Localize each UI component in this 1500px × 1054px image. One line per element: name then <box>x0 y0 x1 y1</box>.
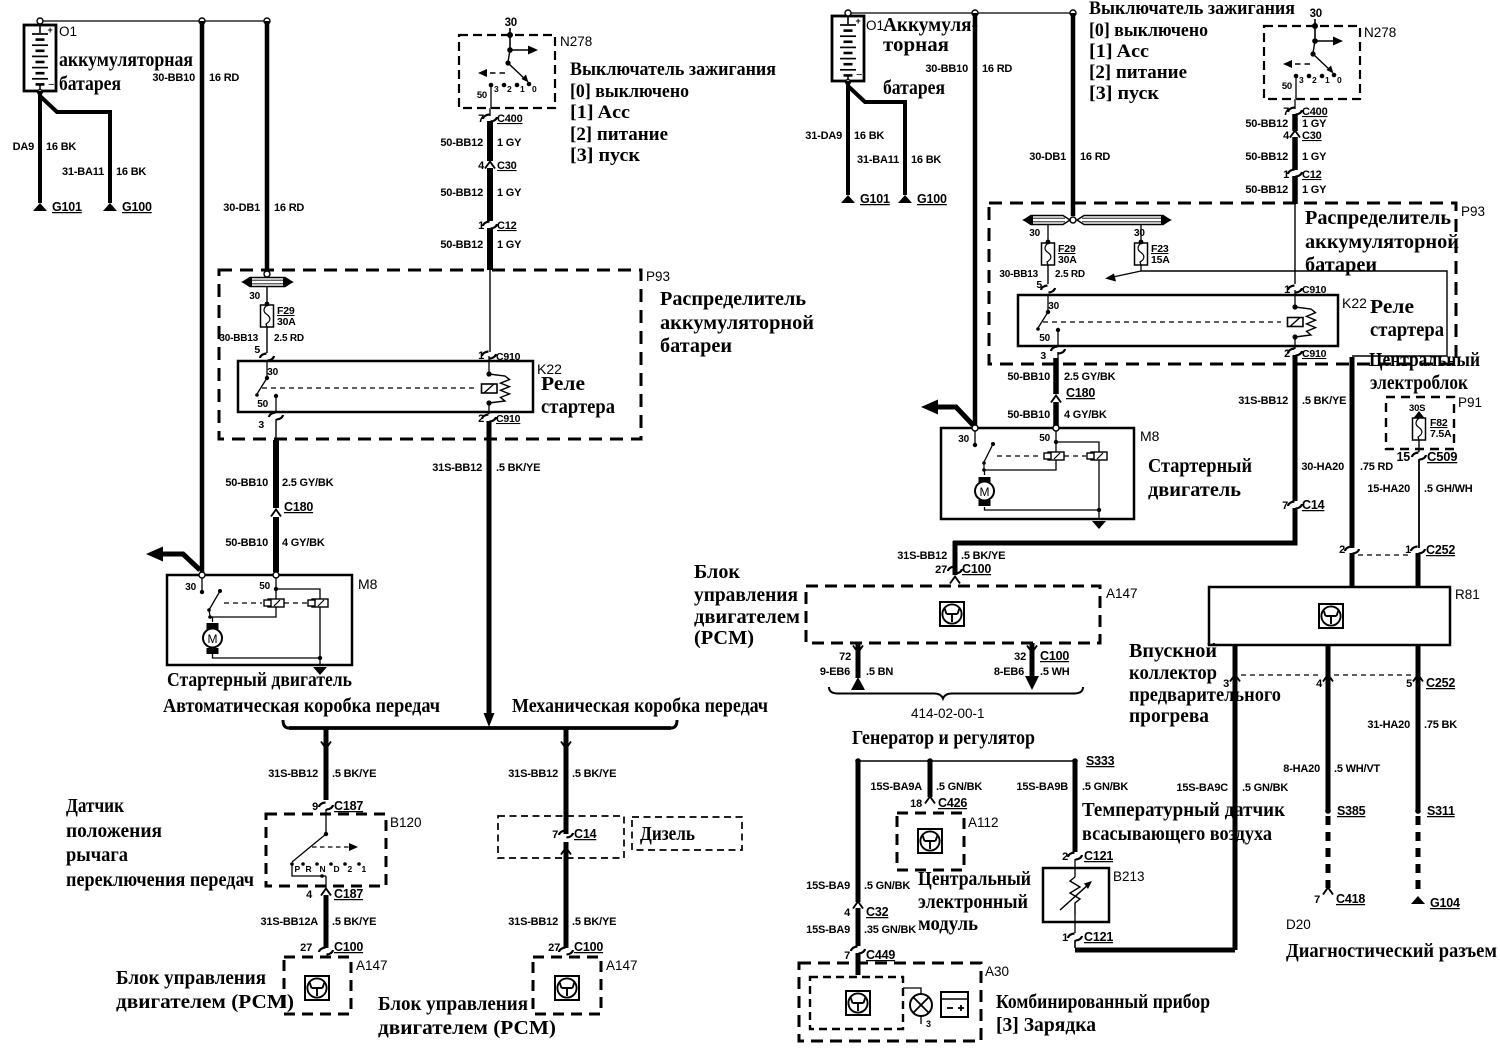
svg-text:двигателем (РСМ): двигателем (РСМ) <box>116 991 294 1013</box>
svg-text:31S-BB12A: 31S-BB12A <box>260 916 318 928</box>
svg-text:7: 7 <box>1314 894 1320 906</box>
svg-text:31-DA9: 31-DA9 <box>805 130 842 142</box>
svg-text:S333: S333 <box>1086 754 1115 768</box>
svg-text:двигатель: двигатель <box>1148 479 1241 501</box>
svg-text:коллектор: коллектор <box>1129 662 1217 684</box>
svg-text:Комбинированный прибор: Комбинированный прибор <box>996 991 1210 1013</box>
svg-text:31-HA20: 31-HA20 <box>1367 719 1410 731</box>
svg-text:50: 50 <box>1039 433 1050 444</box>
svg-text:аккумуляторной: аккумуляторной <box>660 312 814 334</box>
svg-text:C187: C187 <box>334 799 363 813</box>
svg-text:предварительного: предварительного <box>1129 684 1281 706</box>
svg-text:батареи: батареи <box>1305 254 1377 276</box>
svg-text:15-HA20: 15-HA20 <box>1367 483 1410 495</box>
svg-text:30-BB13: 30-BB13 <box>219 333 258 344</box>
svg-text:1 GY: 1 GY <box>1302 151 1327 163</box>
svg-text:R: R <box>306 864 312 874</box>
svg-text:15S-BA9B: 15S-BA9B <box>1016 781 1068 793</box>
svg-text:1 GY: 1 GY <box>497 239 522 251</box>
svg-text:414-02-00-1: 414-02-00-1 <box>911 706 985 721</box>
svg-text:N278: N278 <box>1364 25 1396 40</box>
svg-text:15S-BA9: 15S-BA9 <box>806 880 850 892</box>
svg-text:Стартерный двигатель: Стартерный двигатель <box>167 669 352 691</box>
svg-text:50-BB10: 50-BB10 <box>225 537 268 549</box>
svg-text:P91: P91 <box>1458 395 1482 410</box>
svg-text:Автоматическая коробка передач: Автоматическая коробка передач <box>163 695 440 717</box>
svg-text:30-BB13: 30-BB13 <box>999 269 1038 280</box>
svg-text:C426: C426 <box>938 796 967 810</box>
svg-text:27: 27 <box>935 564 947 576</box>
svg-text:31S-BB12: 31S-BB12 <box>432 462 482 474</box>
svg-text:Выключатель зажигания: Выключатель зажигания <box>570 59 776 80</box>
svg-text:аккумуляторной: аккумуляторной <box>1305 231 1459 253</box>
svg-text:15: 15 <box>1396 450 1410 464</box>
svg-text:7: 7 <box>478 113 484 125</box>
svg-text:G104: G104 <box>1430 896 1460 910</box>
svg-text:0: 0 <box>1337 75 1342 85</box>
svg-text:30: 30 <box>267 367 278 378</box>
svg-text:31S-BB12: 31S-BB12 <box>508 916 558 928</box>
svg-text:двигателем (РСМ): двигателем (РСМ) <box>378 1017 556 1039</box>
svg-text:C100: C100 <box>1040 649 1069 663</box>
svg-text:(РСМ): (РСМ) <box>694 627 754 649</box>
svg-text:Реле: Реле <box>541 373 585 395</box>
svg-text:1 GY: 1 GY <box>1302 118 1327 130</box>
svg-text:C910: C910 <box>1302 348 1327 360</box>
svg-text:2: 2 <box>478 413 484 425</box>
svg-text:C100: C100 <box>334 940 363 954</box>
svg-text:модуль: модуль <box>918 913 978 935</box>
svg-text:S311: S311 <box>1427 804 1455 818</box>
svg-text:50: 50 <box>257 399 268 410</box>
svg-text:[0] выключено: [0] выключено <box>570 81 689 102</box>
svg-text:переключения передач: переключения передач <box>66 869 254 891</box>
svg-text:[0] выключено: [0] выключено <box>1089 20 1208 41</box>
svg-text:A30: A30 <box>985 964 1009 979</box>
svg-text:2.5 RD: 2.5 RD <box>1055 269 1085 280</box>
svg-text:C30: C30 <box>1302 130 1322 142</box>
svg-text:O1: O1 <box>59 24 77 39</box>
svg-text:P93: P93 <box>1461 204 1485 219</box>
svg-text:G100: G100 <box>122 200 152 214</box>
svg-text:−: − <box>856 69 862 81</box>
svg-text:Центральный: Центральный <box>918 868 1031 890</box>
svg-text:50-BB12: 50-BB12 <box>440 137 483 149</box>
svg-text:[2] питание: [2] питание <box>570 124 668 145</box>
svg-text:Дизель: Дизель <box>640 823 695 845</box>
svg-text:A147: A147 <box>356 958 388 973</box>
svg-text:50-BB10: 50-BB10 <box>1007 371 1050 383</box>
svg-text:C121: C121 <box>1084 930 1113 944</box>
svg-text:50: 50 <box>259 581 270 592</box>
svg-text:30: 30 <box>1310 8 1322 20</box>
svg-text:31S-BB12: 31S-BB12 <box>1238 395 1288 407</box>
svg-text:2: 2 <box>348 864 353 874</box>
svg-text:Температурный датчик: Температурный датчик <box>1082 799 1285 821</box>
svg-text:.5 GN/BK: .5 GN/BK <box>1082 781 1128 793</box>
svg-text:8-EB6: 8-EB6 <box>994 666 1024 678</box>
svg-text:30: 30 <box>249 291 260 302</box>
svg-text:[3] Зарядка: [3] Зарядка <box>996 1014 1096 1036</box>
svg-text:[1] Acc: [1] Acc <box>570 102 630 123</box>
svg-text:Реле: Реле <box>1370 296 1414 318</box>
svg-text:1: 1 <box>478 350 484 362</box>
svg-text:+: + <box>48 25 53 35</box>
svg-text:50-BB12: 50-BB12 <box>440 187 483 199</box>
svg-text:M: M <box>208 632 218 646</box>
svg-text:C100: C100 <box>962 562 991 576</box>
svg-text:Датчик: Датчик <box>66 795 124 817</box>
svg-text:31-BA11: 31-BA11 <box>62 166 104 178</box>
svg-text:Распределитель: Распределитель <box>660 288 806 310</box>
svg-text:всасывающего воздуха: всасывающего воздуха <box>1082 823 1272 845</box>
svg-text:Блок управления: Блок управления <box>378 993 528 1015</box>
svg-text:30: 30 <box>505 17 517 29</box>
svg-text:стартера: стартера <box>1370 319 1444 341</box>
svg-text:30-HA20: 30-HA20 <box>1301 461 1344 473</box>
svg-text:D: D <box>334 864 340 874</box>
svg-text:1 GY: 1 GY <box>497 137 522 149</box>
svg-text:M8: M8 <box>358 576 378 592</box>
svg-text:8-HA20: 8-HA20 <box>1283 763 1320 775</box>
svg-text:Стартерный: Стартерный <box>1148 455 1252 477</box>
svg-text:.5 BK/YE: .5 BK/YE <box>332 916 376 928</box>
svg-text:M: M <box>980 485 990 499</box>
svg-text:7: 7 <box>844 950 850 962</box>
svg-text:батареи: батареи <box>660 335 732 357</box>
svg-text:15A: 15A <box>1151 254 1170 266</box>
svg-text:[2] питание: [2] питание <box>1089 62 1187 83</box>
svg-text:50-BB12: 50-BB12 <box>1245 151 1288 163</box>
svg-text:1 GY: 1 GY <box>497 187 522 199</box>
svg-text:30-BB10: 30-BB10 <box>152 72 195 84</box>
svg-text:50-BB12: 50-BB12 <box>1245 118 1288 130</box>
svg-text:[3] пуск: [3] пуск <box>1089 83 1159 104</box>
svg-text:+: + <box>856 16 861 26</box>
svg-text:3: 3 <box>926 1019 931 1029</box>
svg-text:батарея: батарея <box>59 73 121 95</box>
svg-text:C252: C252 <box>1426 543 1455 557</box>
svg-text:M8: M8 <box>1140 428 1160 444</box>
svg-text:7: 7 <box>1283 106 1289 118</box>
svg-text:C12: C12 <box>497 220 517 232</box>
svg-text:A147: A147 <box>606 958 638 973</box>
svg-text:30: 30 <box>185 582 196 593</box>
svg-text:S385: S385 <box>1337 804 1366 818</box>
svg-text:50-BB10: 50-BB10 <box>1007 409 1050 421</box>
svg-text:C180: C180 <box>1066 386 1095 400</box>
svg-text:1: 1 <box>1283 169 1289 181</box>
svg-text:50-BB10: 50-BB10 <box>225 477 268 489</box>
svg-text:30A: 30A <box>1058 254 1077 266</box>
svg-text:31-BA11: 31-BA11 <box>857 154 899 166</box>
svg-text:50: 50 <box>477 90 487 101</box>
svg-text:A112: A112 <box>968 815 999 830</box>
svg-text:.5 GN/BK: .5 GN/BK <box>1242 782 1288 794</box>
svg-text:30-DB1: 30-DB1 <box>1029 151 1066 163</box>
svg-text:3: 3 <box>1040 350 1046 362</box>
svg-text:C14: C14 <box>574 827 597 841</box>
svg-text:C30: C30 <box>497 160 517 172</box>
svg-text:P93: P93 <box>646 269 670 284</box>
svg-text:2: 2 <box>1312 75 1317 85</box>
svg-text:.5 BK/YE: .5 BK/YE <box>961 550 1005 562</box>
svg-text:2: 2 <box>507 84 512 94</box>
svg-text:30A: 30A <box>277 316 296 328</box>
svg-text:15S-BA9C: 15S-BA9C <box>1176 782 1228 794</box>
svg-text:1: 1 <box>1284 284 1290 296</box>
svg-text:Центральный: Центральный <box>1369 349 1480 371</box>
svg-text:.5 BK/YE: .5 BK/YE <box>332 768 376 780</box>
svg-text:B213: B213 <box>1113 869 1145 884</box>
svg-text:9: 9 <box>312 801 318 813</box>
svg-text:N: N <box>320 864 326 874</box>
svg-text:A147: A147 <box>1106 586 1138 601</box>
svg-text:4 GY/BK: 4 GY/BK <box>282 537 325 549</box>
svg-text:.5 GH/WH: .5 GH/WH <box>1424 483 1473 495</box>
svg-text:P: P <box>295 864 301 874</box>
svg-text:7: 7 <box>1282 500 1288 512</box>
svg-text:30-DB1: 30-DB1 <box>223 202 260 214</box>
svg-text:16 BK: 16 BK <box>116 166 146 178</box>
svg-text:.5 WH: .5 WH <box>1040 666 1070 678</box>
svg-text:C449: C449 <box>866 948 895 962</box>
svg-text:50-BB12: 50-BB12 <box>440 239 483 251</box>
svg-text:15S-BA9: 15S-BA9 <box>806 924 850 936</box>
svg-text:16 RD: 16 RD <box>982 63 1012 75</box>
svg-text:Блок управления: Блок управления <box>116 967 266 989</box>
svg-text:27: 27 <box>300 942 312 954</box>
svg-text:7: 7 <box>552 829 558 841</box>
svg-text:50-BB12: 50-BB12 <box>1245 184 1288 196</box>
svg-text:0: 0 <box>532 84 537 94</box>
svg-text:2: 2 <box>1062 851 1068 863</box>
svg-text:D20: D20 <box>1286 917 1311 932</box>
svg-text:30S: 30S <box>1409 403 1425 414</box>
svg-text:30-BB10: 30-BB10 <box>925 63 968 75</box>
svg-text:Механическая коробка передач: Механическая коробка передач <box>512 695 768 717</box>
svg-text:1: 1 <box>362 864 367 874</box>
svg-text:C252: C252 <box>1426 676 1455 690</box>
svg-text:DA9: DA9 <box>13 141 34 153</box>
svg-text:15S-BA9A: 15S-BA9A <box>870 781 922 793</box>
svg-text:Блок: Блок <box>694 561 740 583</box>
svg-text:1 GY: 1 GY <box>1302 184 1327 196</box>
svg-text:G100: G100 <box>917 192 947 206</box>
svg-text:5: 5 <box>1406 678 1412 690</box>
svg-text:G101: G101 <box>52 200 82 214</box>
svg-text:.5 BK/YE: .5 BK/YE <box>572 768 616 780</box>
svg-text:31S-BB12: 31S-BB12 <box>268 768 318 780</box>
svg-text:2.5 GY/BK: 2.5 GY/BK <box>1064 371 1116 383</box>
svg-text:.75 BK: .75 BK <box>1424 719 1457 731</box>
svg-text:.75 RD: .75 RD <box>1360 461 1393 473</box>
svg-text:1: 1 <box>1325 75 1330 85</box>
svg-text:.5 GN/BK: .5 GN/BK <box>936 781 982 793</box>
svg-text:1: 1 <box>478 220 484 232</box>
svg-text:B120: B120 <box>390 815 422 830</box>
svg-text:C910: C910 <box>1302 284 1327 296</box>
svg-text:электронный: электронный <box>918 891 1028 913</box>
svg-text:[3] пуск: [3] пуск <box>570 145 640 166</box>
svg-text:3: 3 <box>494 84 499 94</box>
svg-text:30: 30 <box>1134 228 1145 239</box>
svg-text:.5 BK/YE: .5 BK/YE <box>496 462 540 474</box>
svg-text:C400: C400 <box>497 113 523 125</box>
svg-text:двигателем: двигателем <box>694 606 800 628</box>
svg-text:Впускной: Впускной <box>1129 640 1217 662</box>
svg-text:16 RD: 16 RD <box>1080 151 1110 163</box>
svg-text:C509: C509 <box>1427 449 1457 464</box>
svg-text:.5 BN: .5 BN <box>866 666 893 678</box>
svg-text:.5 GN/BK: .5 GN/BK <box>864 880 910 892</box>
svg-text:.5 WH/VT: .5 WH/VT <box>1334 763 1381 775</box>
svg-text:3: 3 <box>1299 75 1304 85</box>
svg-text:.5 BK/YE: .5 BK/YE <box>572 916 616 928</box>
svg-text:C910: C910 <box>496 351 521 363</box>
svg-text:C14: C14 <box>1302 498 1325 512</box>
svg-text:2.5 GY/BK: 2.5 GY/BK <box>282 477 334 489</box>
svg-text:рычага: рычага <box>66 844 128 866</box>
svg-text:K22: K22 <box>1342 295 1367 311</box>
svg-text:30: 30 <box>958 434 969 445</box>
svg-text:16 BK: 16 BK <box>911 154 941 166</box>
svg-text:C121: C121 <box>1084 849 1113 863</box>
svg-text:положения: положения <box>66 820 162 842</box>
svg-text:C180: C180 <box>284 500 313 514</box>
svg-text:−: − <box>48 79 54 91</box>
svg-text:N278: N278 <box>560 34 592 49</box>
svg-text:7.5A: 7.5A <box>1430 428 1452 440</box>
svg-text:R81: R81 <box>1455 587 1480 602</box>
svg-text:Распределитель: Распределитель <box>1305 207 1451 229</box>
svg-text:аккумуляторная: аккумуляторная <box>59 49 193 71</box>
svg-text:9-EB6: 9-EB6 <box>820 666 850 678</box>
svg-text:C910: C910 <box>496 413 521 425</box>
svg-text:31S-BB12: 31S-BB12 <box>508 768 558 780</box>
svg-text:5: 5 <box>254 344 260 356</box>
svg-text:торная: торная <box>883 34 949 56</box>
svg-text:72: 72 <box>839 651 851 663</box>
svg-text:31S-BB12: 31S-BB12 <box>897 550 947 562</box>
svg-text:16 RD: 16 RD <box>209 72 239 84</box>
svg-text:2: 2 <box>1284 348 1290 360</box>
svg-text:Выключатель зажигания: Выключатель зажигания <box>1089 0 1295 19</box>
svg-text:C12: C12 <box>1302 169 1322 181</box>
svg-text:C400: C400 <box>1302 106 1328 118</box>
svg-text:1: 1 <box>520 84 525 94</box>
svg-text:2.5 RD: 2.5 RD <box>274 333 304 344</box>
svg-text:прогрева: прогрева <box>1129 705 1209 727</box>
svg-text:1: 1 <box>1062 932 1068 944</box>
svg-text:Генератор и регулятор: Генератор и регулятор <box>852 727 1035 749</box>
svg-text:16 RD: 16 RD <box>274 202 304 214</box>
svg-text:[1] Acc: [1] Acc <box>1089 41 1149 62</box>
svg-text:электроблок: электроблок <box>1370 372 1468 394</box>
svg-text:стартера: стартера <box>541 396 615 418</box>
svg-text:C32: C32 <box>866 905 889 919</box>
svg-text:C100: C100 <box>574 940 603 954</box>
svg-text:G101: G101 <box>860 192 890 206</box>
svg-text:32: 32 <box>1014 651 1026 663</box>
svg-text:3: 3 <box>258 419 264 431</box>
svg-text:16 BK: 16 BK <box>854 130 884 142</box>
svg-text:Диагностический разъем: Диагностический разъем <box>1286 940 1497 962</box>
svg-text:27: 27 <box>548 942 560 954</box>
svg-text:батарея: батарея <box>883 77 945 99</box>
svg-text:управления: управления <box>694 584 798 606</box>
svg-text:16 BK: 16 BK <box>46 141 76 153</box>
svg-text:.5 BK/YE: .5 BK/YE <box>1302 395 1346 407</box>
svg-text:50: 50 <box>1282 81 1292 92</box>
svg-text:18: 18 <box>910 798 922 810</box>
svg-text:C187: C187 <box>334 887 363 901</box>
svg-text:30: 30 <box>1029 228 1040 239</box>
svg-text:Аккумуля-: Аккумуля- <box>883 14 978 36</box>
svg-text:.35 GN/BK: .35 GN/BK <box>864 924 916 936</box>
svg-text:50: 50 <box>1039 333 1050 344</box>
svg-text:4 GY/BK: 4 GY/BK <box>1064 409 1107 421</box>
svg-text:30: 30 <box>1048 301 1059 312</box>
svg-text:C418: C418 <box>1336 892 1365 906</box>
svg-text:O1: O1 <box>866 18 884 33</box>
